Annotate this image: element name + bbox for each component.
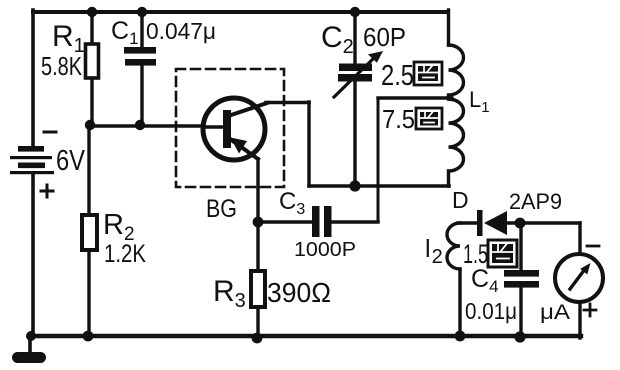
resistor R1 branch wire top [90, 12, 93, 44]
transistor collector line [228, 103, 267, 116]
svg-text:7.5: 7.5 [382, 104, 415, 134]
svg-text:D: D [452, 187, 469, 213]
resistor R3 [251, 271, 265, 307]
wire C4 bottom [519, 288, 522, 338]
wire R2 branch top [87, 126, 90, 215]
glyph quan 1 [414, 62, 442, 85]
battery plus sign [41, 185, 53, 197]
wire tap horizontal [378, 96, 452, 99]
svg-text:2AP9: 2AP9 [509, 189, 562, 214]
svg-text:0.047μ: 0.047μ [146, 18, 216, 44]
transistor base wire inside [204, 125, 225, 128]
wire C3 left [258, 220, 313, 224]
resistor R1 [86, 44, 99, 78]
svg-text:0.01μ: 0.01μ [465, 298, 517, 324]
meter needle [570, 269, 585, 289]
glyph quan 2 [416, 108, 442, 129]
wire R3 bottom [256, 307, 259, 338]
svg-text:1000P: 1000P [294, 239, 356, 261]
wire left rail upper [31, 10, 35, 147]
capacitor C1 branch wire top [140, 12, 143, 47]
wire C3 right [331, 220, 378, 224]
capacitor C4 [504, 270, 539, 288]
svg-text:1.2K: 1.2K [104, 240, 146, 268]
node dot bottom rail at L2 [455, 331, 466, 342]
svg-text:C3: C3 [279, 188, 305, 218]
diode D cathode bar [477, 210, 483, 236]
node dot top rail at R1 [87, 7, 97, 17]
wire diode right [505, 221, 580, 224]
wire C1 bottom [140, 66, 143, 126]
node dot bottom rail at R2 [83, 331, 94, 342]
wire collector horizontal [266, 101, 309, 105]
wire oscillator bottom [309, 184, 449, 188]
wire C4 top [519, 223, 522, 271]
wire R1 bottom [90, 78, 93, 126]
meter plus sign [584, 304, 596, 316]
svg-text:60P: 60P [363, 22, 406, 52]
transistor emitter line [230, 139, 258, 159]
svg-text:BG: BG [206, 195, 237, 223]
resistor R2 [82, 215, 97, 250]
battery B1 6V [10, 146, 54, 174]
node dot top rail at C2 [350, 7, 360, 17]
svg-text:C1: C1 [111, 17, 139, 48]
ground stub [28, 336, 32, 354]
dashed box around transistor [176, 69, 284, 187]
node dot bottom rail at C4 [514, 331, 525, 342]
transistor emitter arrow [231, 138, 248, 154]
wire meter bottom [578, 302, 581, 338]
ground blob [12, 352, 46, 363]
transistor base bar [223, 110, 231, 148]
svg-text:6V: 6V [56, 145, 86, 177]
meter M1 circle [555, 254, 603, 302]
svg-text:C2: C2 [321, 21, 354, 58]
node dot bottom left corner [26, 331, 36, 341]
capacitor C3 [312, 206, 332, 237]
transistor BG circle [203, 98, 265, 160]
node dot bottom rail at R3 [252, 333, 263, 344]
wire collector down [307, 102, 310, 186]
svg-text:R3: R3 [213, 275, 246, 312]
wire R2 bottom [87, 250, 90, 336]
wire meter top [578, 223, 581, 254]
node dot base at R1 [85, 120, 95, 130]
wire C2 top [353, 12, 356, 64]
svg-text:C4: C4 [471, 265, 499, 296]
svg-text:5.8K: 5.8K [41, 51, 82, 81]
inductor L1 coil [449, 45, 464, 186]
capacitor C2 [338, 64, 372, 82]
svg-text:L1: L1 [469, 87, 490, 116]
wire bottom rail [31, 334, 581, 338]
wire tap vertical [377, 98, 380, 222]
wire R3 top [256, 222, 259, 271]
meter needle arrowhead [580, 263, 590, 275]
capacitor C1 [124, 47, 156, 66]
inductor L1 top lead [447, 10, 450, 45]
svg-text:l2: l2 [425, 235, 443, 268]
glyph quan 3 [488, 240, 517, 267]
node dot emitter C3 [253, 217, 264, 228]
wire top rail [33, 10, 448, 14]
meter minus sign [587, 245, 599, 248]
wire base node horizontal [90, 124, 205, 127]
battery minus sign [44, 131, 56, 134]
wire emitter down [256, 159, 259, 222]
inductor L2 coil [447, 223, 460, 269]
capacitor C2 arrowhead [368, 51, 383, 63]
node dot base at C1 [135, 120, 145, 130]
node dot diode C4 [515, 218, 526, 229]
node dot C2 bottom [349, 180, 360, 191]
diode D triangle [484, 211, 507, 235]
wire L2 bottom [458, 269, 461, 336]
wire C2 bottom [353, 82, 356, 186]
svg-text:μA: μA [540, 301, 570, 324]
svg-text:390Ω: 390Ω [267, 277, 331, 308]
wire diode left [458, 221, 479, 224]
svg-text:2.5: 2.5 [381, 60, 414, 92]
wire left rail lower [31, 174, 35, 336]
node dot top rail at C1 [137, 7, 147, 17]
capacitor C2 arrow line [334, 55, 377, 97]
